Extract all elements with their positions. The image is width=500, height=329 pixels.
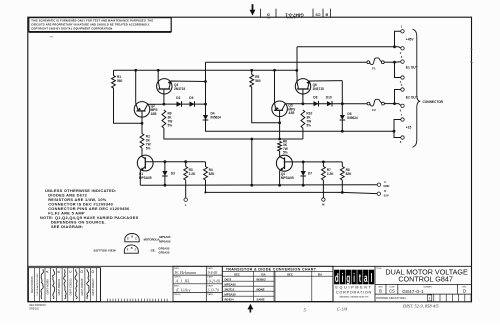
wire R7 top (322, 162, 324, 167)
wire to pin7 (394, 120, 401, 132)
scale ticks (101, 268, 168, 302)
transistor package bottom view (GE) (94, 245, 170, 255)
junction Q3 emitter/E1 (204, 80, 207, 83)
svg-text:REV: REV (265, 16, 270, 18)
junction D6/+15 line (341, 130, 344, 133)
junction +45V pins (393, 45, 396, 48)
svg-text:l: l (371, 272, 373, 286)
wire R2 to Q1 base (141, 148, 143, 155)
svg-text:IN5624: IN5624 (347, 116, 358, 120)
wire R3 to terminal (185, 180, 187, 198)
transistor Q4 (276, 155, 342, 185)
node X1 (163, 103, 166, 106)
svg-text:E. Lilley: E. Lilley (175, 288, 190, 293)
svg-text:G847-C00103: G847-C00103 (68, 278, 72, 295)
wire to pin2 (395, 47, 401, 48)
svg-text:C: C (135, 249, 137, 252)
resistor R8 (340, 167, 344, 181)
svg-text:G847-D00105: G847-D00105 (80, 278, 84, 295)
junction rail/feed (295, 69, 298, 72)
diode D3 (162, 171, 168, 176)
svg-text:A. J. JH.: A. J. JH. (175, 279, 191, 284)
svg-text:NUMBER: NUMBER (423, 286, 432, 288)
svg-text:G847-A0099: G847-A0099 (46, 279, 50, 295)
svg-text:2-13-70: 2-13-70 (207, 289, 219, 293)
copyright notice box (29, 18, 171, 33)
svg-text:CONTROL G847: CONTROL G847 (398, 275, 452, 284)
wire E2 diode line (303, 103, 367, 105)
drawing border (28, 17, 472, 302)
wire to pin8 (394, 131, 401, 137)
wire diode line ch1 (164, 103, 206, 105)
terminal pin 5 (401, 88, 404, 91)
svg-text:d: d (335, 272, 339, 286)
svg-text:IN5624: IN5624 (225, 297, 234, 301)
wire -15V line (342, 192, 377, 193)
svg-text:2N3715: 2N3715 (313, 87, 324, 91)
handwritten notes (304, 304, 440, 313)
svg-text:E1 OUT: E1 OUT (406, 66, 418, 70)
wire R1 bottom to Q2 base node (114, 88, 143, 123)
junction rail/Q5 (273, 69, 276, 72)
wire E2 diode line b (384, 103, 394, 105)
wire R4 to -15V line (206, 180, 343, 192)
svg-text:PROD.: PROD. (174, 294, 181, 296)
wire R8 top (341, 162, 343, 167)
svg-text:DATE: DATE (207, 284, 213, 287)
diode D4 (203, 115, 209, 120)
wire D7 top (302, 162, 304, 171)
microfilm title strip (upside down) (261, 9, 331, 18)
svg-text:L: L (185, 203, 187, 207)
svg-text:2N3715: 2N3715 (225, 287, 235, 291)
wire R3 top (185, 162, 187, 167)
junction D7 top (302, 161, 305, 164)
svg-text:2.2K: 2.2K (327, 172, 334, 176)
terminal pin 2 (401, 47, 404, 50)
svg-text:5%: 5% (168, 124, 173, 128)
terminal pin 8 (401, 136, 404, 139)
svg-text:TRANSISTOR & DIODE CONVERSION: TRANSISTOR & DIODE CONVERSION CHART (226, 267, 317, 271)
terminal pin 7 (401, 118, 404, 121)
wire feedback line2 (164, 128, 303, 139)
DEC digital logo (333, 266, 375, 301)
stray mark (50, 36, 53, 38)
wire D6 bottom (341, 120, 343, 131)
svg-text:NUMBER: NUMBER (286, 16, 295, 18)
wire R4 top (205, 162, 207, 167)
svg-text:EQUIPMENT: EQUIPMENT (335, 285, 372, 289)
svg-text:CORPORATION: CORPORATION (336, 290, 372, 294)
wire to pin4 (395, 62, 401, 77)
svg-text:MPSA55: MPSA55 (159, 239, 171, 243)
wire +45V feed drop (296, 47, 298, 71)
svg-text:SEE DIAGRAM:: SEE DIAGRAM: (51, 224, 83, 229)
svg-text:GE:: GE: (151, 249, 156, 253)
wire to pin3 (395, 61, 401, 64)
svg-text:2N3715: 2N3715 (174, 87, 185, 91)
svg-text:CS: CS (389, 289, 395, 294)
transistor & diode conversion chart (222, 266, 333, 301)
svg-text:D: D (384, 189, 386, 193)
svg-text:W. Hehmann: W. Hehmann (175, 270, 196, 275)
svg-text:5%: 5% (306, 124, 311, 128)
svg-text:E2 OUT: E2 OUT (406, 96, 418, 100)
diode D10 (327, 101, 332, 107)
svg-text:DRB 102: DRB 102 (30, 309, 40, 311)
svg-text:10-21-69: 10-21-69 (207, 280, 220, 284)
title strip frame (28, 265, 472, 267)
wire R8 bottom (341, 180, 343, 192)
svg-text:CONNECTOR: CONNECTOR (423, 100, 444, 104)
wire to pin5 (395, 90, 401, 104)
svg-text:D: D (463, 289, 466, 294)
fold mark down-arrow (250, 4, 256, 15)
svg-text:MOTOROLA:: MOTOROLA: (144, 238, 161, 242)
wire +45V feed (297, 46, 395, 48)
svg-text:COPYRIGHT 1969 BY DIGITAL EQUI: COPYRIGHT 1969 BY DIGITAL EQUIPMENT CORP… (31, 26, 112, 30)
junction gnd tee (250, 184, 253, 187)
resistor R9 (162, 110, 166, 128)
title block (375, 267, 472, 301)
svg-text:D8: D8 (313, 96, 317, 100)
svg-text:REVISIONS: REVISIONS (30, 276, 34, 293)
fuse F2 (367, 99, 384, 106)
junction E2 pins (393, 102, 396, 105)
svg-text:9-4-69: 9-4-69 (208, 271, 218, 275)
form number (30, 305, 47, 311)
transistor package bottom view (Motorola) (125, 234, 171, 244)
transistor Q6 (295, 79, 342, 104)
svg-text:B: B (379, 289, 382, 294)
svg-text:EIA: EIA (318, 272, 322, 276)
wire D3 bottom (164, 176, 166, 185)
connector brace (413, 29, 421, 147)
terminal pin 4 (401, 76, 404, 79)
wire Q6 collector feed (296, 70, 298, 80)
resistor R2 (140, 134, 144, 149)
svg-text:IN3653: IN3653 (257, 277, 266, 281)
transistor Q3 (157, 70, 206, 104)
transistor Q5 (272, 70, 303, 123)
svg-text:D3: D3 (171, 172, 175, 176)
wire R5 top (251, 70, 253, 74)
svg-text:D: D (267, 12, 270, 16)
wire gnd rail (140, 184, 377, 187)
revisions table (29, 268, 101, 302)
svg-text:MPSA05: MPSA05 (225, 282, 237, 286)
svg-text:PRINTED CIRCUIT REV.: PRINTED CIRCUIT REV. (376, 296, 406, 300)
diode D7 (300, 171, 306, 176)
junction rail/R5 (250, 69, 253, 72)
svg-text:NONE: NONE (257, 287, 265, 291)
junction diode line/E1 vertical (204, 103, 207, 106)
diode D6 (340, 115, 346, 120)
junction Q4 emitter/gnd (278, 184, 281, 187)
wire R10 bottom (302, 128, 304, 139)
svg-text:D672: D672 (225, 277, 232, 281)
svg-text:C: C (135, 237, 137, 240)
resistor R5 (250, 75, 254, 88)
transistor Q1 (137, 155, 205, 185)
svg-text:F: F (429, 297, 431, 301)
resistor R10 (301, 110, 305, 128)
junction E1 pins (393, 61, 396, 64)
resistor R3 (184, 167, 188, 181)
resistor R4 (204, 167, 208, 181)
svg-text:i: i (353, 272, 355, 286)
svg-text:CHK CHANGE NO. REV: CHK CHANGE NO. REV (36, 273, 39, 296)
terminal L (184, 198, 187, 201)
svg-text:G847-D00107: G847-D00107 (91, 278, 95, 295)
junction D3/gnd rail (164, 184, 167, 187)
fuse F1 (367, 58, 384, 65)
junction -15V corner (204, 191, 206, 193)
svg-text:MPSA05: MPSA05 (281, 176, 294, 180)
diode D8 (314, 101, 319, 107)
svg-text:B: B (131, 247, 133, 250)
svg-text:MAYNARD, MASSACHUSETTS: MAYNARD, MASSACHUSETTS (340, 296, 369, 299)
junction R3 top (184, 160, 187, 163)
notes text (40, 188, 139, 229)
wire E1 vertical and +15 line (206, 62, 395, 131)
junction D3 top (164, 160, 167, 163)
svg-text:F2: F2 (372, 108, 376, 112)
wire Q5 node to line2 (279, 123, 281, 139)
svg-text:CS: CS (315, 12, 321, 16)
diode D2 (177, 101, 182, 107)
junction D7/gnd (302, 184, 305, 187)
diode D9 (190, 101, 195, 107)
svg-text:F1: F1 (372, 67, 376, 71)
svg-text:D2: D2 (176, 96, 180, 100)
svg-text:DATE: DATE (207, 267, 213, 270)
terminal pin 3 (401, 60, 404, 63)
fold mark up-arrow (248, 304, 254, 313)
svg-text:B: B (325, 12, 328, 16)
wire R7 to terminal (322, 180, 324, 198)
svg-text:82K: 82K (209, 172, 216, 176)
svg-text:-15V: -15V (383, 194, 389, 198)
svg-text:G847-0-1: G847-0-1 (402, 289, 424, 295)
svg-text:MPSA55: MPSA55 (225, 292, 237, 296)
junction rail/Q3 (157, 69, 160, 72)
terminal D -15V (377, 192, 380, 195)
svg-text:2.2K: 2.2K (189, 172, 196, 176)
junction R8/-15V line (341, 191, 344, 194)
wire R5 bottom to Q5 base node (252, 87, 280, 123)
wire +45V rail (114, 69, 297, 71)
junction Q5 base node (278, 121, 281, 124)
junction E2/D6 vertical (341, 102, 344, 105)
junction R7 top (322, 161, 325, 164)
wire R1 top (113, 70, 115, 75)
junction line2/R6 (278, 138, 281, 141)
terminal pin 1 (401, 30, 404, 33)
wire D3 top (164, 162, 166, 171)
signature block (173, 266, 222, 301)
junction +15 pins (393, 130, 396, 133)
svg-text:DEC: DEC (287, 272, 293, 276)
node X2 (302, 102, 305, 105)
wire to D4 (205, 104, 207, 115)
svg-text:EIA: EIA (261, 272, 265, 276)
svg-text:B: B (131, 236, 133, 239)
svg-text:TITLE: TITLE (376, 268, 382, 270)
wire E1 line b (384, 61, 394, 63)
terminal M (322, 198, 325, 201)
resistor R1 (112, 76, 116, 89)
svg-text:G847-B00101: G847-B00101 (57, 278, 61, 295)
junction rail/Q2 (134, 69, 137, 72)
margin ticks (470, 49, 472, 63)
svg-text:i: i (342, 272, 344, 286)
wire E1 line (206, 61, 367, 63)
svg-text:GPSA55: GPSA55 (158, 250, 169, 254)
wire line2 to gnd rail (251, 139, 253, 185)
resistor R7 (322, 167, 326, 181)
svg-text:560: 560 (117, 79, 123, 83)
svg-text:IN5624: IN5624 (211, 116, 222, 120)
wire R2 top (141, 123, 143, 133)
svg-text:+15: +15 (406, 126, 412, 130)
terminal pin 6 (401, 104, 404, 107)
transistor Q2 (134, 70, 164, 123)
junction Q2 base node (141, 122, 144, 125)
resistor R6 (278, 142, 282, 152)
wire D7 bottom (302, 176, 304, 185)
wire to pin6 (395, 104, 401, 106)
svg-text:560: 560 (255, 79, 261, 83)
svg-text:THIS SCHEMATIC IS FURNISHED ON: THIS SCHEMATIC IS FURNISHED ONLY FOR TES… (31, 18, 153, 22)
terminal C GND (377, 183, 380, 186)
svg-text:A55: A55 (151, 112, 157, 116)
svg-text:A55: A55 (288, 111, 294, 115)
svg-text:+45V: +45V (406, 37, 415, 41)
svg-text:DATE: DATE (207, 276, 213, 279)
svg-text:SAME: SAME (257, 297, 265, 301)
junction line2 tee (250, 138, 253, 141)
svg-text:MPSA05: MPSA05 (139, 176, 152, 180)
wire to pin1 (395, 31, 401, 47)
wire Q6 emitter drop (341, 81, 343, 115)
svg-text:5%: 5% (146, 146, 151, 150)
svg-text:GND: GND (383, 184, 389, 188)
svg-text:CIRCUITS ARE PROPRIETARY IN NA: CIRCUITS ARE PROPRIETARY IN NATURE AND S… (31, 22, 150, 26)
svg-text:C-114: C-114 (337, 307, 347, 312)
svg-text:DEC FORM NO: DEC FORM NO (30, 305, 47, 307)
svg-text:D9: D9 (189, 96, 193, 100)
svg-text:g: g (346, 272, 350, 286)
svg-text:D10: D10 (326, 96, 332, 100)
svg-text:D7: D7 (308, 172, 312, 176)
svg-text:BOTTOM VIEW: BOTTOM VIEW (94, 249, 116, 253)
wire R6 to Q4 base (279, 151, 281, 155)
svg-text:5%: 5% (283, 150, 288, 154)
svg-text:a: a (364, 272, 368, 286)
svg-text:82K: 82K (346, 172, 353, 176)
svg-text:DATE: DATE (207, 293, 213, 296)
svg-text:DEC: DEC (234, 272, 240, 276)
